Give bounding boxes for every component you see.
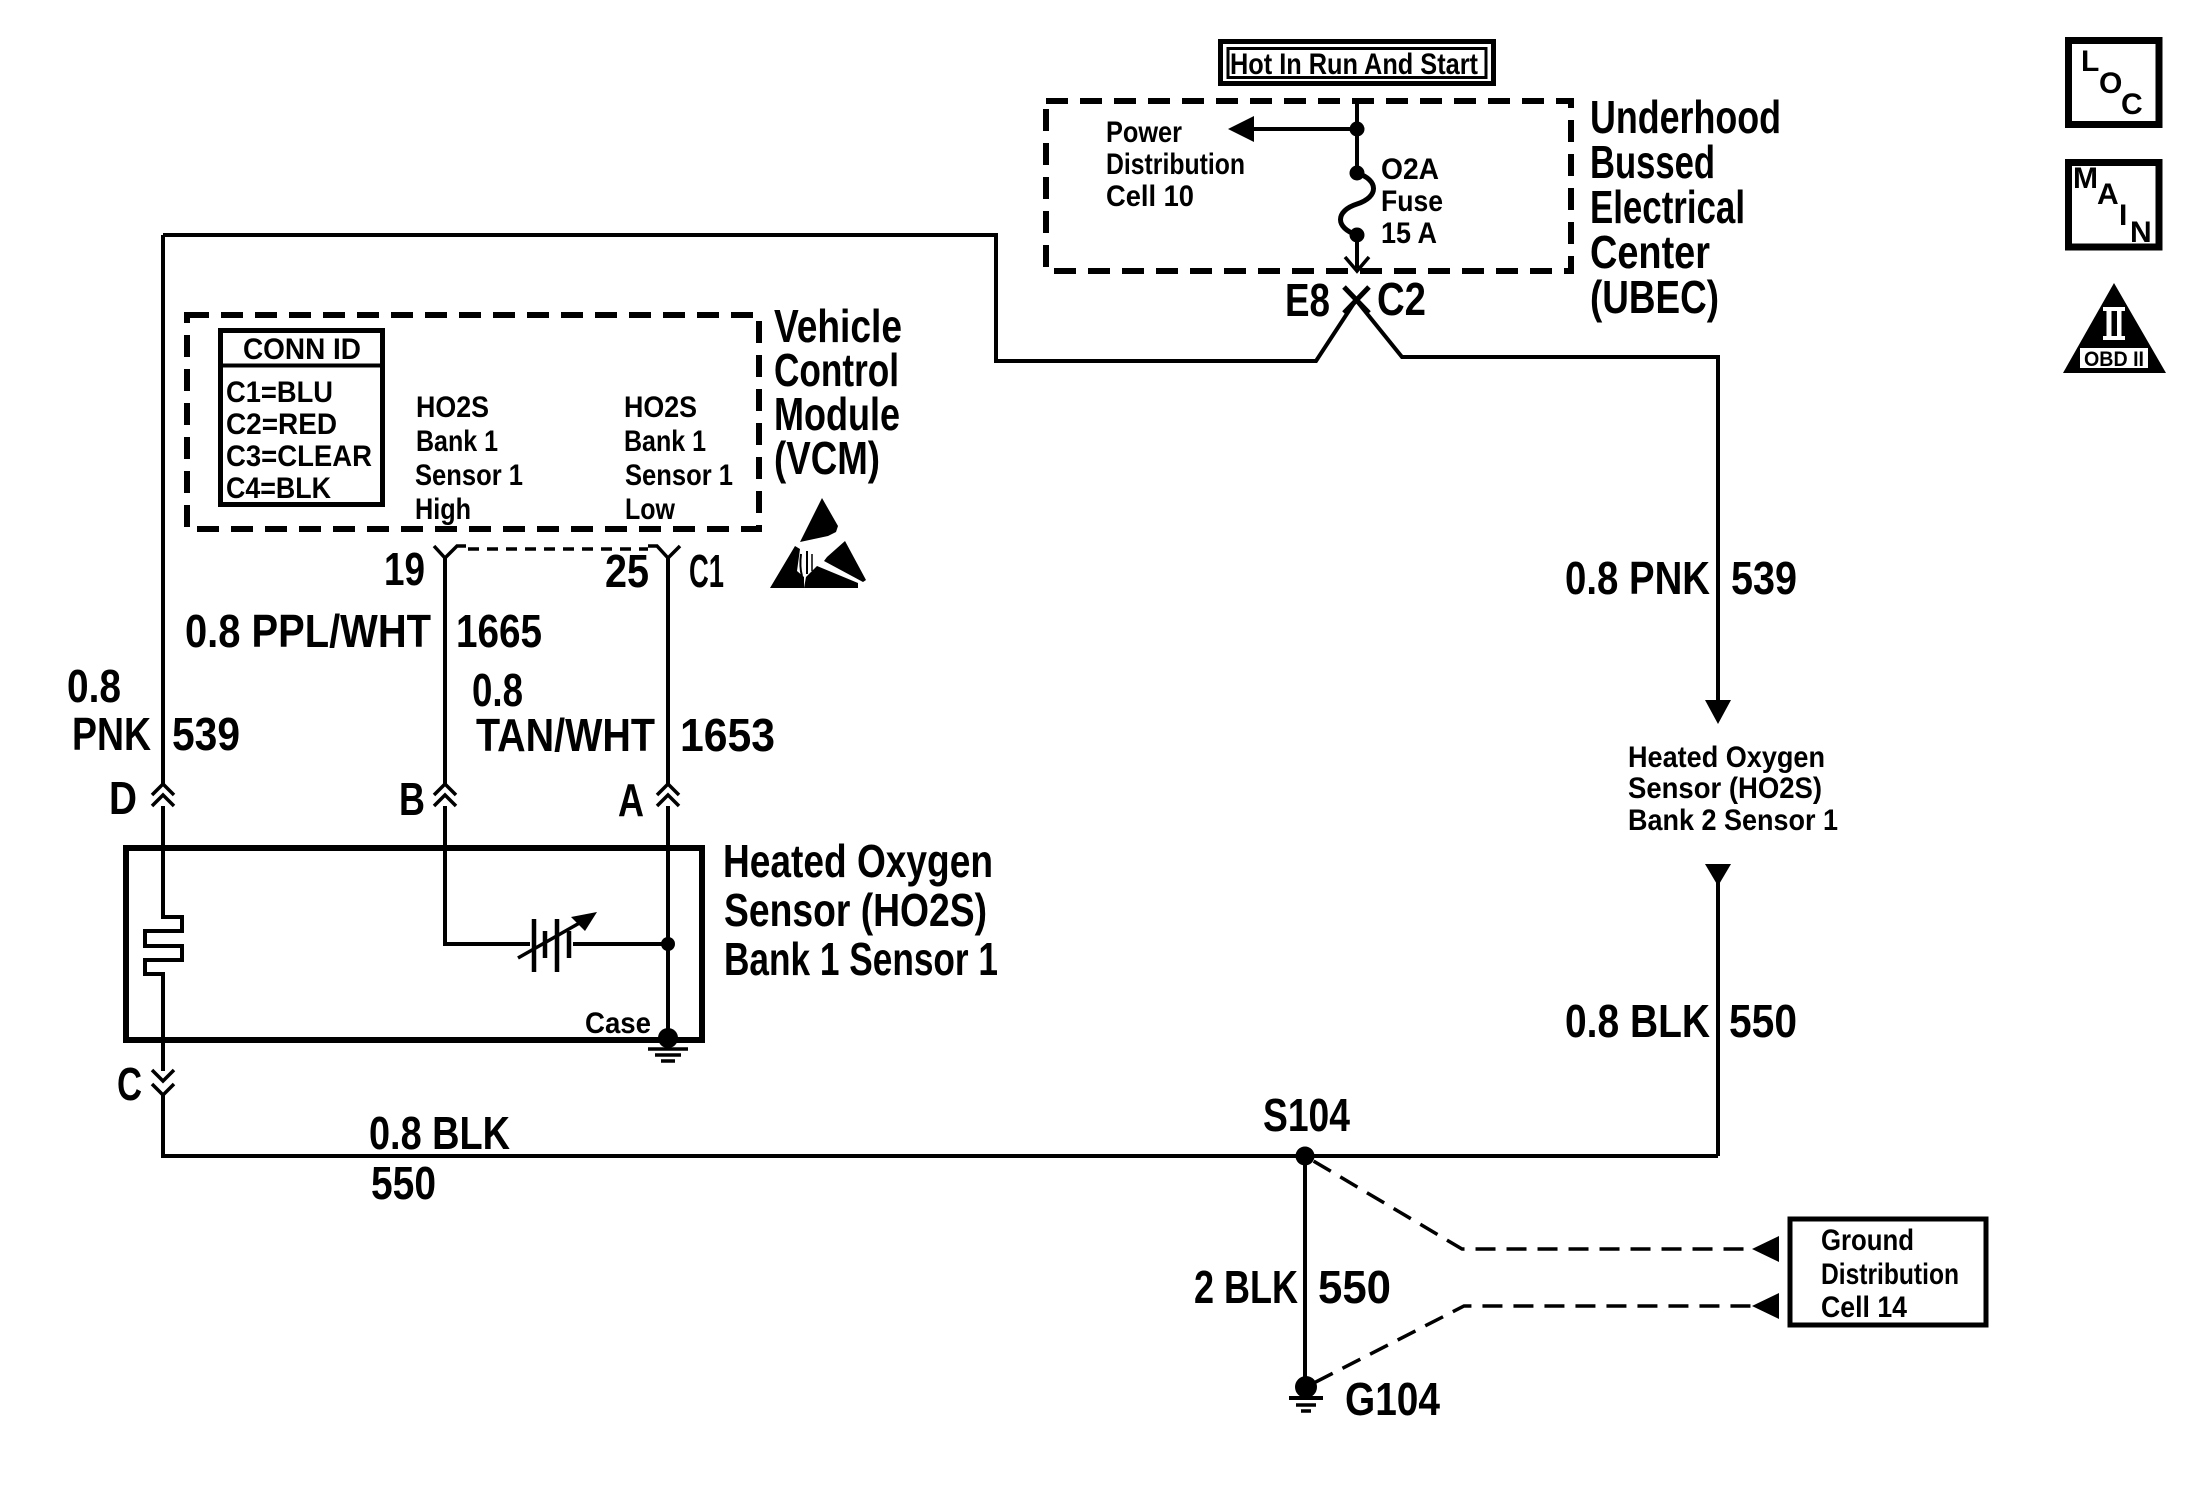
svg-text:M: M — [2073, 162, 2098, 195]
svg-text:0.8 PPL/WHT: 0.8 PPL/WHT — [185, 605, 431, 657]
arrow into ground distribution (upper) — [1752, 1236, 1779, 1262]
svg-text:19: 19 — [384, 543, 425, 595]
svg-text:High: High — [415, 493, 471, 526]
node: Ground Distribution Cell 14 box — [1790, 1219, 1986, 1325]
wire: left PNK drop — [161, 235, 165, 784]
svg-text:550: 550 — [1729, 995, 1797, 1047]
label: 2 BLK 550 — [1194, 1261, 1391, 1313]
wire: B into sensor element — [445, 806, 530, 944]
CONN ID table — [220, 331, 383, 506]
wire: BLK 550 run to S104 — [163, 1095, 1718, 1156]
ground symbol at case — [648, 1049, 688, 1061]
svg-text:2 BLK: 2 BLK — [1194, 1261, 1298, 1313]
svg-text:Cell 10: Cell 10 — [1106, 180, 1194, 213]
dashed wire: S104 to ground distribution — [1305, 1156, 1751, 1249]
connector C1 dashed face line — [468, 547, 648, 551]
svg-text:0.8 PNK: 0.8 PNK — [1565, 552, 1710, 604]
svg-text:Distribution: Distribution — [1821, 1258, 1959, 1291]
sensor element (variable cell) — [518, 912, 597, 972]
ESD warning symbol — [770, 498, 866, 588]
label 0.8 BLK 550 (bottom left) — [369, 1107, 510, 1209]
svg-text:Sensor (HO2S): Sensor (HO2S) — [724, 884, 987, 936]
node: Power Distribution Cell 10 text — [1106, 116, 1245, 213]
arrow into HO2S bank2 — [1705, 700, 1731, 724]
svg-text:Bank 2 Sensor 1: Bank 2 Sensor 1 — [1628, 804, 1838, 837]
label: 0.8 PNK 539 (left) — [67, 660, 240, 760]
svg-text:G104: G104 — [1345, 1373, 1440, 1425]
svg-text:D: D — [109, 772, 137, 824]
svg-text:S104: S104 — [1263, 1089, 1350, 1141]
svg-text:Ground: Ground — [1821, 1224, 1914, 1257]
fuse value label — [1381, 153, 1443, 250]
node: UBEC title text — [1590, 91, 1781, 323]
svg-text:C: C — [117, 1058, 142, 1110]
ground G104 — [1289, 1373, 1440, 1425]
svg-text:1653: 1653 — [680, 709, 775, 761]
svg-text:C: C — [2121, 88, 2143, 121]
connector E8 / C2 crossing — [1285, 273, 1426, 326]
svg-text:539: 539 — [172, 708, 240, 760]
svg-text:O: O — [2099, 67, 2122, 100]
svg-text:C2: C2 — [1377, 273, 1426, 325]
junction dot on bus — [1350, 122, 1365, 137]
node: VCM title text — [774, 300, 902, 484]
label: 0.8 BLK 550 (right) — [1565, 995, 1797, 1047]
svg-text:1665: 1665 — [456, 605, 542, 657]
node: HO2S Bank1 title — [723, 835, 998, 985]
HO2S Bank1 Sensor1 box — [126, 848, 702, 1040]
node: VCM pin function labels — [415, 391, 733, 526]
node: Hot In Run And Start label box — [1221, 42, 1494, 84]
svg-text:15 A: 15 A — [1381, 217, 1437, 250]
wire: A drop through box to case — [666, 806, 670, 1038]
svg-text:Sensor 1: Sensor 1 — [625, 459, 733, 492]
arrow out of HO2S bank2 — [1705, 864, 1731, 886]
svg-text:0.8 BLK: 0.8 BLK — [1565, 995, 1710, 1047]
fuse O2A 15A — [1341, 166, 1374, 272]
junction dot at element output — [661, 937, 675, 951]
svg-text:539: 539 — [1731, 552, 1797, 604]
label: 0.8 TAN/WHT 1653 — [472, 664, 775, 761]
svg-text:HO2S: HO2S — [624, 391, 697, 424]
wire: pin25 to connector A (TAN/WHT) — [666, 558, 670, 784]
wire: S104 to G104 — [1303, 1156, 1307, 1387]
svg-text:C1: C1 — [689, 545, 724, 597]
svg-text:Case: Case — [585, 1007, 651, 1040]
svg-text:A: A — [2097, 178, 2119, 211]
svg-text:Power: Power — [1106, 116, 1182, 149]
svg-text:PNK: PNK — [72, 708, 151, 760]
arrow into ground distribution (lower) — [1752, 1293, 1779, 1319]
connector B — [399, 773, 456, 825]
svg-text:C4=BLK: C4=BLK — [226, 472, 331, 505]
svg-text:Low: Low — [625, 493, 676, 526]
wire: bank2 BLK drop — [1716, 880, 1720, 1156]
svg-text:L: L — [2081, 45, 2099, 78]
case ground dot — [658, 1028, 678, 1048]
wire: C2 leg to right branch — [1356, 300, 1718, 700]
wire: pin19 to connector B (PPL/WHT) — [443, 558, 447, 784]
svg-text:Heated Oxygen: Heated Oxygen — [723, 835, 993, 887]
svg-text:N: N — [2130, 216, 2152, 249]
svg-text:C1=BLU: C1=BLU — [226, 376, 333, 409]
connector D — [109, 772, 174, 824]
svg-text:B: B — [399, 773, 425, 825]
svg-text:E8: E8 — [1285, 274, 1330, 326]
svg-text:Heated Oxygen: Heated Oxygen — [1628, 741, 1825, 774]
connector A — [618, 774, 679, 826]
svg-text:550: 550 — [371, 1157, 436, 1209]
pin 25 terminal — [605, 545, 680, 597]
wire: hot feed into fuse — [1355, 101, 1359, 173]
connector C — [117, 1058, 174, 1110]
svg-text:C2=RED: C2=RED — [226, 408, 337, 441]
svg-text:A: A — [618, 774, 644, 826]
dashed wire: G104 to ground distribution — [1306, 1306, 1751, 1387]
heater element (left, PNK wire) — [145, 806, 182, 1071]
UBEC dashed box — [1046, 101, 1571, 271]
svg-text:550: 550 — [1318, 1261, 1391, 1313]
svg-text:Sensor (HO2S): Sensor (HO2S) — [1628, 772, 1822, 805]
node: HO2S Bank2 text — [1628, 741, 1838, 837]
svg-text:25: 25 — [605, 545, 649, 597]
svg-text:0.8 BLK: 0.8 BLK — [369, 1107, 510, 1159]
MAIN reference box — [2069, 162, 2160, 249]
svg-text:HO2S: HO2S — [416, 391, 489, 424]
svg-text:Fuse: Fuse — [1381, 185, 1443, 218]
svg-text:Sensor 1: Sensor 1 — [415, 459, 523, 492]
svg-text:I: I — [2119, 199, 2127, 232]
svg-text:Bank 1: Bank 1 — [416, 425, 498, 458]
svg-text:(VCM): (VCM) — [774, 432, 880, 484]
wire: arrow to Power Distribution Cell 10 — [1250, 127, 1357, 131]
svg-text:O2A: O2A — [1381, 153, 1439, 186]
svg-text:C3=CLEAR: C3=CLEAR — [226, 440, 372, 473]
label: 0.8 PNK 539 (right) — [1565, 552, 1797, 604]
OBD II symbol — [2063, 283, 2166, 373]
wire: E8 leg to VCM (left run) — [163, 235, 1356, 361]
svg-text:Bank 1 Sensor 1: Bank 1 Sensor 1 — [724, 933, 998, 985]
svg-text:Distribution: Distribution — [1106, 148, 1245, 181]
svg-text:Hot In Run And Start: Hot In Run And Start — [1230, 48, 1478, 81]
svg-text:TAN/WHT: TAN/WHT — [476, 709, 655, 761]
svg-text:OBD II: OBD II — [2084, 348, 2144, 371]
LOC reference box — [2069, 41, 2160, 125]
wire: element to node A drop — [573, 942, 668, 946]
splice S104 — [1263, 1089, 1350, 1166]
svg-text:CONN ID: CONN ID — [243, 333, 361, 366]
pin 19 terminal — [384, 543, 466, 595]
svg-text:Cell 14: Cell 14 — [1821, 1291, 1907, 1324]
VCM dashed box — [187, 315, 759, 529]
label: 0.8 PPL/WHT 1665 — [185, 605, 542, 657]
svg-text:Bank 1: Bank 1 — [624, 425, 706, 458]
svg-text:(UBEC): (UBEC) — [1590, 271, 1719, 323]
svg-text:0.8: 0.8 — [67, 660, 121, 712]
